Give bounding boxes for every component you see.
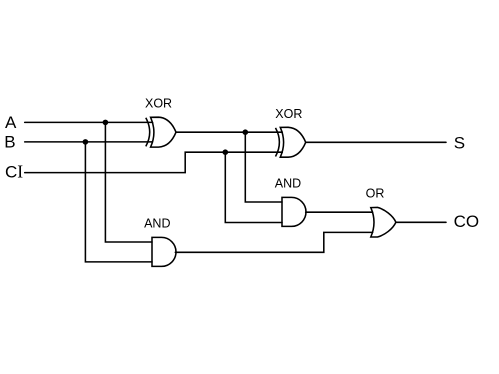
svg-text:XOR: XOR [145,97,172,111]
wire AND1 output to OR [306,211,373,213]
wire B input [25,141,153,143]
wire B branch to AND2 bottom [85,142,152,262]
XOR gate U1 [146,117,176,147]
svg-text:XOR: XOR [275,107,302,121]
wire branch x225 to AND1 bottom [225,152,282,222]
wire CI input [25,152,283,172]
wire CO output [396,221,446,223]
svg-text:AND: AND [144,216,170,230]
svg-text:B: B [4,133,15,152]
node junction XOR1 output [243,129,249,135]
XOR gate U2 [276,127,306,157]
svg-text:CO: CO [454,212,480,231]
wire S output [306,141,446,143]
wire XOR1 output to XOR2 [176,131,282,133]
wire A branch to AND2 top [105,122,152,242]
node junction CI branch [223,149,229,155]
svg-text:A: A [5,113,17,132]
wire AND2 output to OR [175,232,372,252]
svg-text:OR: OR [366,186,385,200]
svg-text:CI: CI [5,162,23,182]
wire A input [25,121,153,123]
svg-text:AND: AND [275,176,301,190]
AND gate U4 [152,237,176,266]
wire branch x245 to AND1 top [245,132,282,202]
AND gate U3 [282,197,306,226]
node junction on A [103,120,109,126]
OR gate U5 [371,207,396,237]
svg-text:S: S [454,134,465,153]
node junction on B [83,139,89,145]
